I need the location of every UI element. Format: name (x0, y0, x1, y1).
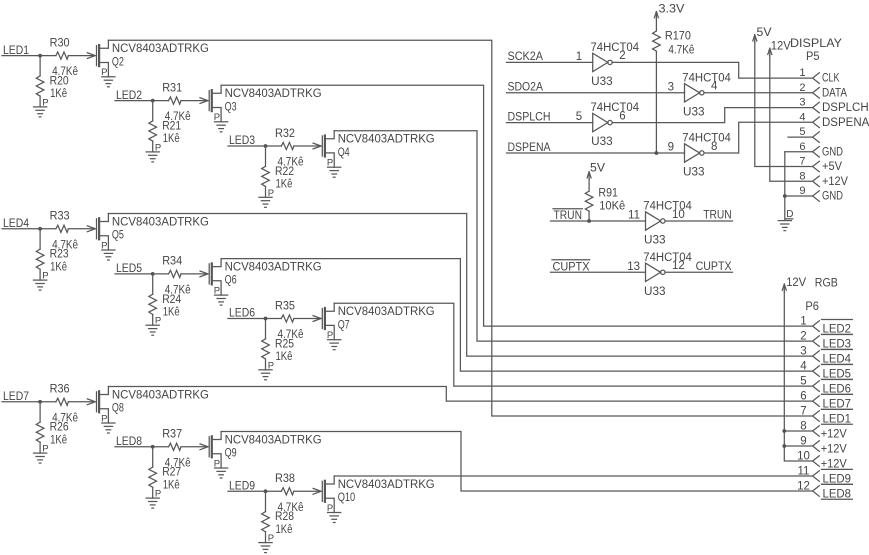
junction LED4 (38, 227, 42, 231)
wire R23 to ground (39, 269, 41, 280)
svg-text:R25: R25 (275, 338, 294, 350)
underline of D label (786, 218, 793, 220)
wire LED4 to R33 (2, 228, 56, 230)
connector P6 pin 12 (813, 486, 820, 497)
connector P5 pin 3 (813, 102, 820, 113)
svg-text:+12V: +12V (822, 176, 848, 188)
connector P6 pin 6 (813, 396, 820, 407)
transistor Q3 (200, 85, 221, 122)
connector P6 pin 9 (813, 441, 820, 452)
svg-text:1Kê: 1Kê (276, 351, 293, 363)
svg-text:4: 4 (799, 111, 805, 123)
wire 12V rail to P5 pin8 (770, 55, 813, 181)
svg-text:Q2: Q2 (112, 56, 124, 68)
svg-text:CLK: CLK (822, 73, 840, 85)
resistor R26 (36, 422, 44, 442)
wire CUPTX inverter output (665, 271, 732, 273)
svg-text:12: 12 (797, 480, 810, 492)
wire 5V to R91 (588, 179, 590, 191)
svg-text:NCV8403ADTRKG: NCV8403ADTRKG (338, 306, 435, 318)
connector P5 pin 9 (813, 191, 820, 202)
svg-text:R34: R34 (162, 256, 183, 268)
svg-text:R27: R27 (162, 467, 181, 479)
svg-text:3: 3 (800, 346, 806, 358)
wire LED3 junction down to R22 (265, 146, 267, 166)
wire R22 to ground (265, 187, 267, 198)
wire P5 pin5 no-connect stub (788, 136, 813, 138)
svg-text:LED6: LED6 (823, 383, 852, 395)
svg-text:R24: R24 (162, 294, 182, 306)
connector P6 pin 11 (813, 471, 820, 482)
wire R34 to Q6 gate (181, 273, 207, 275)
svg-text:4: 4 (711, 81, 718, 93)
wire TRUN inverter output (665, 220, 732, 222)
svg-text:Q8: Q8 (112, 403, 124, 415)
svg-text:1Kê: 1Kê (50, 88, 67, 100)
svg-text:DSPENA: DSPENA (508, 142, 551, 154)
svg-text:R22: R22 (275, 166, 294, 178)
op-amp/inverter U33 CUPTX (646, 263, 666, 281)
svg-text:LED1: LED1 (823, 413, 852, 425)
power symbol 5V arrow (P5) (753, 35, 757, 43)
svg-text:11: 11 (628, 210, 640, 222)
svg-text:1Kê: 1Kê (276, 179, 293, 191)
wire R37 to Q9 gate (181, 446, 207, 448)
wire P5 GND rail pin6 to pin9 (784, 152, 786, 220)
wire LED2 junction down to R21 (152, 101, 154, 121)
resistor R91 (585, 191, 593, 211)
resistor R27 (149, 467, 157, 487)
wire LED9 to R38 (228, 490, 281, 492)
net label LED9 (P6 pin 11) (822, 469, 853, 485)
svg-text:5: 5 (576, 111, 582, 123)
connector P5 pin 6 (813, 147, 820, 158)
wire P6 pin9 +12V stub (784, 445, 812, 447)
net label LED1 (P6 pin 7) (822, 409, 853, 425)
svg-text:Q9: Q9 (225, 448, 237, 460)
wire R31 to Q3 gate (181, 100, 207, 102)
wire R30 to Q2 gate (68, 55, 94, 57)
wire Q7 drain bus (334, 303, 812, 386)
resistor R31 (169, 97, 182, 104)
svg-text:LED9: LED9 (823, 473, 852, 485)
svg-text:LED2: LED2 (823, 323, 852, 335)
svg-text:8: 8 (711, 141, 717, 153)
svg-text:TRUN: TRUN (703, 210, 732, 222)
junction LED5 (151, 272, 155, 276)
op-amp/inverter U33 DSPENA (685, 144, 705, 162)
wire R21 to ground (152, 141, 154, 152)
resistor R32 (281, 142, 294, 149)
svg-text:R33: R33 (50, 211, 70, 223)
wire 12V rail to P6 pins 8-10 (784, 291, 812, 461)
ground at R26 (34, 453, 47, 463)
svg-text:7: 7 (799, 156, 805, 168)
wire LED9 junction down to R28 (265, 491, 267, 511)
svg-text:6: 6 (799, 141, 805, 153)
overline for /TRUN input label (553, 208, 582, 210)
svg-text:NCV8403ADTRKG: NCV8403ADTRKG (338, 134, 435, 146)
connector P6 pin 1 (813, 321, 820, 332)
junction LED2 (151, 99, 155, 103)
svg-text:R170: R170 (665, 30, 691, 42)
wire R35 to Q7 gate (294, 318, 320, 320)
transistor Q8 (87, 387, 108, 424)
wire P5 pin9 GND (785, 195, 813, 197)
svg-text:4.7Kê: 4.7Kê (668, 45, 694, 57)
svg-text:8: 8 (799, 170, 805, 182)
wire Q4 drain bus (334, 131, 812, 341)
connector P6 pin 7 (813, 411, 820, 422)
svg-text:74HCT04: 74HCT04 (643, 252, 692, 264)
svg-text:+5V: +5V (822, 161, 842, 173)
svg-text:U33: U33 (644, 286, 666, 298)
wire LED7 to R36 (2, 401, 56, 403)
power symbol 5V arrow (R91) (587, 172, 591, 180)
svg-text:+12V: +12V (821, 443, 847, 455)
resistor R33 (56, 225, 69, 232)
ground at R28 (259, 543, 272, 553)
wire Q8 drain bus (108, 387, 812, 402)
ground at R24 (146, 325, 159, 335)
svg-text:Q7: Q7 (338, 319, 350, 331)
wire Q2 drain bus (108, 40, 812, 416)
wire 3.3V to R170 (655, 19, 657, 32)
wire LED2 to R31 (115, 100, 169, 102)
junction LED9 (264, 489, 268, 493)
ground at Q10 source (328, 513, 341, 523)
net label LED3 (P6 pin 2) (822, 335, 853, 351)
svg-text:13: 13 (627, 261, 640, 273)
junction R91/TRUN (587, 219, 591, 223)
svg-text:+12V: +12V (821, 428, 847, 440)
connector P5 pin 2 (813, 88, 820, 99)
svg-text:NCV8403ADTRKG: NCV8403ADTRKG (225, 261, 322, 273)
connector P5 pin 4 (813, 117, 820, 128)
resistor R25 (262, 339, 270, 359)
connector P5 pin 7 (813, 161, 820, 172)
ground at R25 (259, 370, 272, 380)
svg-text:Q3: Q3 (225, 101, 237, 113)
wire P6 pin8 +12V stub (784, 430, 812, 432)
ground at Q9 source (215, 468, 228, 478)
connector P5 pin 1 (813, 73, 820, 84)
wire LED6 to R35 (228, 318, 281, 320)
transistor Q4 (313, 131, 334, 168)
power symbol 3.3V arrow (654, 12, 658, 20)
svg-text:11: 11 (798, 465, 810, 477)
ground at Q5 source (102, 250, 115, 260)
junction LED3 (264, 144, 268, 148)
resistor R21 (149, 121, 157, 141)
junction 12V rail at P6 pin8 (782, 429, 786, 433)
svg-text:Q10: Q10 (338, 492, 356, 504)
connector P6 pin 3 (813, 351, 820, 362)
svg-text:R38: R38 (275, 473, 295, 485)
wire R26 to ground (39, 442, 41, 453)
wire R20 to ground (39, 96, 41, 107)
junction LED8 (151, 445, 155, 449)
svg-text:9: 9 (668, 142, 674, 154)
wire R33 to Q5 gate (68, 228, 94, 230)
junction P5 GND rail at pin9 (783, 194, 787, 198)
wire LED1 to R30 (2, 55, 56, 57)
wire inverter out to P5 pin1 CLK (612, 62, 812, 78)
svg-text:DSPLCH: DSPLCH (508, 111, 551, 123)
connector P6 pin 4 (813, 366, 820, 377)
svg-text:6: 6 (800, 390, 806, 402)
wire SCK2A to inverter input (507, 61, 593, 63)
op-amp/inverter U33 DSPLCH (593, 113, 613, 131)
ground at R21 (146, 152, 159, 162)
svg-text:1: 1 (576, 51, 582, 63)
svg-text:8: 8 (800, 420, 806, 432)
transistor Q9 (200, 432, 221, 469)
svg-text:5: 5 (800, 376, 806, 388)
connector P6 pin 5 (813, 381, 820, 392)
svg-text:12: 12 (672, 260, 685, 272)
wire inverter out to P5 pin4 DSPENA (704, 122, 812, 153)
resistor R34 (169, 270, 182, 277)
wire Q5 drain bus (108, 214, 812, 357)
svg-text:1Kê: 1Kê (50, 434, 67, 446)
svg-text:+12V: +12V (821, 458, 847, 470)
svg-text:LED8: LED8 (823, 488, 852, 500)
transistor Q10 (313, 476, 334, 513)
svg-text:SDO2A: SDO2A (508, 82, 544, 94)
svg-text:LED3: LED3 (823, 338, 852, 350)
resistor R28 (262, 512, 270, 532)
wire inverter out to P5 pin3 DSPLCH (612, 108, 812, 123)
wire LED3 to R32 (228, 145, 281, 147)
resistor R30 (56, 52, 69, 59)
svg-text:3.3V: 3.3V (659, 4, 685, 16)
wire DSPLCH to inverter input (507, 122, 593, 124)
svg-text:10: 10 (672, 209, 685, 221)
svg-text:GND: GND (822, 146, 843, 158)
svg-text:R35: R35 (275, 300, 295, 312)
wire R36 to Q8 gate (68, 401, 94, 403)
wire Q10 drain to P6 pin 11 (334, 475, 812, 477)
svg-text:NCV8403ADTRKG: NCV8403ADTRKG (225, 88, 322, 100)
wire Q6 drain bus (221, 259, 813, 372)
resistor R22 (262, 166, 270, 186)
svg-text:GND: GND (822, 191, 843, 203)
svg-text:1Kê: 1Kê (276, 524, 293, 536)
connector P5 pin 5 (813, 132, 820, 143)
svg-text:CUPTX: CUPTX (696, 261, 732, 273)
svg-text:74HCT04: 74HCT04 (682, 133, 731, 145)
svg-text:74HCT04: 74HCT04 (682, 72, 731, 84)
svg-text:U33: U33 (591, 136, 613, 148)
wire R91 to TRUN net (588, 211, 590, 221)
ground at R27 (146, 498, 159, 508)
svg-text:1Kê: 1Kê (163, 306, 180, 318)
wire LED4 junction down to R23 (39, 229, 41, 249)
svg-text:NCV8403ADTRKG: NCV8403ADTRKG (225, 434, 322, 446)
svg-text:1: 1 (800, 316, 806, 328)
wire SDO2A to inverter input (507, 92, 685, 94)
wire LED6 junction down to R25 (265, 319, 267, 339)
wire R27 to ground (152, 487, 154, 498)
ground at Q4 source (328, 167, 341, 177)
svg-text:R20: R20 (50, 76, 69, 88)
svg-text:74HCT04: 74HCT04 (643, 201, 692, 213)
ground at P5 (778, 221, 791, 231)
wire 5V rail to P5 pin7 (755, 42, 813, 167)
wire LED7 junction down to R26 (39, 402, 41, 422)
svg-text:2: 2 (619, 50, 625, 62)
svg-text:SCK2A: SCK2A (508, 51, 544, 63)
svg-text:R37: R37 (162, 429, 182, 441)
transistor Q5 (87, 214, 108, 251)
wire DSPENA to inverter input (507, 152, 685, 154)
svg-text:4: 4 (800, 361, 807, 373)
op-amp/inverter U33 SCK2A (593, 53, 613, 71)
wire CUPTX input to inverter (551, 271, 646, 273)
svg-text:1Kê: 1Kê (50, 261, 67, 273)
svg-text:1: 1 (799, 67, 805, 79)
junction 12V rail at P6 pin9 (782, 444, 786, 448)
svg-text:Q6: Q6 (225, 275, 237, 287)
svg-text:NCV8403ADTRKG: NCV8403ADTRKG (112, 43, 209, 55)
resistor R38 (281, 488, 294, 495)
svg-text:NCV8403ADTRKG: NCV8403ADTRKG (112, 389, 209, 401)
svg-text:12V: 12V (786, 277, 806, 289)
op-amp/inverter U33 SDO2A (685, 84, 705, 102)
wire R24 to ground (152, 314, 154, 325)
ground at R22 (259, 197, 272, 207)
resistor R35 (281, 315, 294, 322)
svg-text:10: 10 (797, 450, 810, 462)
svg-text:2: 2 (800, 331, 806, 343)
svg-text:1Kê: 1Kê (163, 133, 180, 145)
svg-text:R91: R91 (598, 188, 618, 200)
wire inverter out to P5 pin2 DATA (704, 92, 812, 94)
power symbol 12V arrow (P6) (782, 284, 786, 292)
svg-text:R36: R36 (50, 384, 70, 396)
connector P6 pin 2 (813, 336, 820, 347)
svg-text:7: 7 (800, 405, 806, 417)
resistor R20 (36, 76, 44, 96)
svg-text:3: 3 (799, 97, 805, 109)
svg-text:U33: U33 (683, 167, 705, 179)
wire Q9 drain bus (221, 432, 813, 492)
svg-text:5V: 5V (757, 27, 772, 39)
svg-text:12V: 12V (771, 40, 791, 52)
ground at Q3 source (215, 122, 228, 132)
resistor R36 (56, 398, 69, 405)
ground at R20 (34, 107, 47, 117)
junction LED7 (38, 400, 42, 404)
svg-text:NCV8403ADTRKG: NCV8403ADTRKG (112, 216, 209, 228)
svg-text:9: 9 (799, 185, 805, 197)
transistor Q7 (313, 303, 334, 340)
svg-text:R30: R30 (50, 37, 70, 49)
wire P5 pin6 GND (785, 151, 813, 153)
svg-text:74HCT04: 74HCT04 (591, 102, 640, 114)
wire Q3 drain bus (221, 85, 813, 326)
svg-text:3: 3 (668, 81, 674, 93)
svg-text:9: 9 (800, 435, 806, 447)
junction R170/DSPENA (655, 151, 659, 155)
connector P5 pin 8 (813, 176, 820, 187)
svg-text:U33: U33 (644, 235, 666, 247)
svg-text:DISPLAY: DISPLAY (790, 38, 842, 50)
net label LED2 (P6 pin 1) (822, 320, 853, 336)
wire LED5 to R34 (115, 273, 169, 275)
svg-text:P6: P6 (805, 301, 819, 313)
wire LED8 junction down to R27 (152, 447, 154, 467)
net label LED4 (P6 pin 3) (822, 350, 853, 366)
svg-text:R28: R28 (275, 511, 294, 523)
net label LED8 (P6 pin 12) (822, 484, 853, 500)
net label LED7 (P6 pin 6) (822, 394, 853, 410)
junction LED6 (264, 317, 268, 321)
net label LED6 (P6 pin 5) (822, 380, 853, 396)
svg-text:RGB: RGB (815, 278, 838, 290)
svg-text:LED5: LED5 (823, 368, 852, 380)
svg-text:R31: R31 (162, 82, 182, 94)
svg-text:74HCT04: 74HCT04 (591, 42, 640, 54)
wire LED1 junction down to R20 (39, 56, 41, 76)
svg-text:LED4: LED4 (823, 353, 852, 365)
svg-text:1Kê: 1Kê (163, 479, 180, 491)
svg-text:NCV8403ADTRKG: NCV8403ADTRKG (338, 479, 435, 491)
wire LED5 junction down to R24 (152, 274, 154, 294)
svg-text:Q4: Q4 (338, 147, 350, 159)
svg-text:DSPENA: DSPENA (822, 117, 869, 129)
connector P6 pin 10 (813, 456, 820, 467)
ground at Q8 source (102, 423, 115, 433)
ground at Q6 source (215, 295, 228, 305)
svg-text:5: 5 (799, 126, 805, 138)
resistor R23 (36, 249, 44, 269)
svg-text:DATA: DATA (822, 87, 847, 99)
transistor Q2 (87, 40, 108, 77)
wire R170 to DSPENA net (655, 51, 657, 153)
svg-text:Q5: Q5 (112, 230, 124, 242)
svg-text:R32: R32 (275, 128, 295, 140)
svg-text:DSPLCH: DSPLCH (822, 102, 869, 114)
svg-text:R26: R26 (50, 422, 69, 434)
wire R32 to Q4 gate (294, 145, 320, 147)
svg-text:R21: R21 (162, 121, 181, 133)
svg-text:R23: R23 (50, 249, 69, 261)
svg-text:6: 6 (619, 110, 625, 122)
svg-text:U33: U33 (683, 106, 705, 118)
svg-text:LED7: LED7 (823, 398, 852, 410)
wire LED8 to R37 (115, 446, 169, 448)
ground at R23 (34, 280, 47, 290)
resistor R170 (653, 31, 661, 51)
connector P6 pin 8 (813, 426, 820, 437)
wire R28 to ground (265, 532, 267, 543)
svg-text:10Kê: 10Kê (599, 201, 625, 213)
wire R38 to Q10 gate (294, 490, 320, 492)
svg-text:2: 2 (799, 82, 805, 94)
overline for /CUPTX input label (552, 259, 590, 261)
svg-text:5V: 5V (590, 162, 605, 174)
transistor Q6 (200, 259, 221, 296)
resistor R37 (169, 443, 182, 450)
ground at Q7 source (328, 340, 341, 350)
net label LED5 (P6 pin 4) (822, 365, 853, 381)
resistor R24 (149, 294, 157, 314)
svg-text:P5: P5 (806, 51, 820, 63)
svg-text:U33: U33 (591, 76, 613, 88)
power symbol 12V arrow (P5) (768, 48, 772, 56)
